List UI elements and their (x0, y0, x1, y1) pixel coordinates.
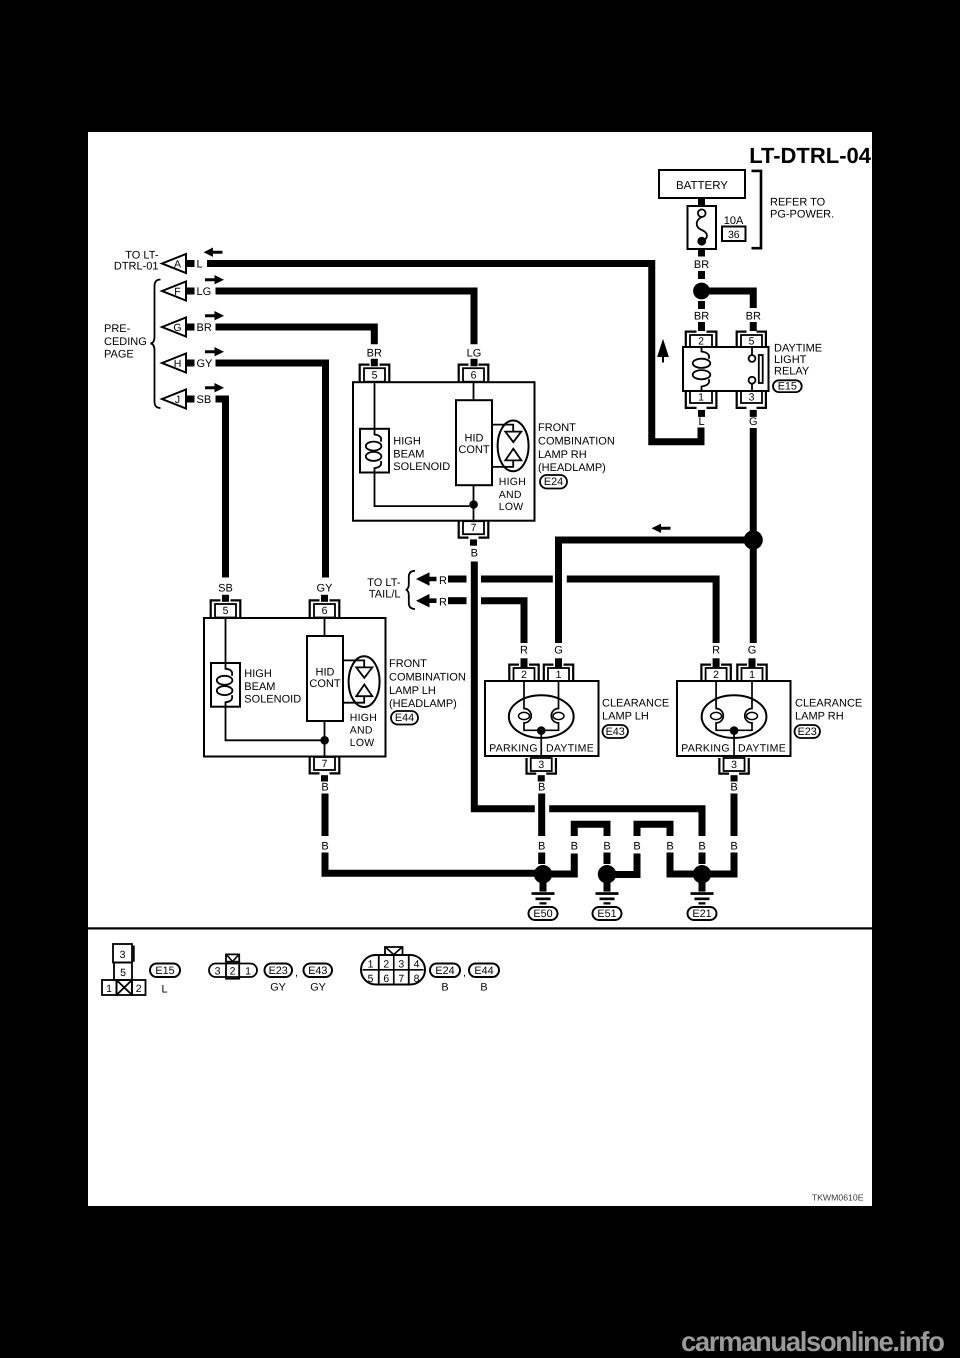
svg-text:5: 5 (749, 336, 755, 348)
pin 6 (LH (headlamp)) (310, 600, 340, 618)
svg-text:2: 2 (521, 669, 527, 681)
pin 2 (RH) (701, 665, 730, 681)
svg-text:E43: E43 (308, 965, 327, 977)
wire bridge E51-E21 (637, 824, 670, 836)
connector ref E15 (773, 380, 802, 392)
svg-text:LAMP LH: LAMP LH (602, 710, 649, 722)
arrow R row1 to LT-TAIL/L (416, 572, 467, 587)
svg-text:LOW: LOW (350, 737, 375, 749)
svg-text:E15: E15 (155, 965, 174, 977)
svg-text:7: 7 (398, 973, 404, 985)
label R above LH clearance pin2 (520, 644, 528, 667)
wire G from relay pin3 down to junction and RH clearance pin1 (750, 428, 757, 643)
wire BR junction to relay pin 2 (694, 301, 709, 331)
svg-text:HIGH: HIGH (350, 712, 377, 724)
svg-text:R: R (439, 575, 447, 587)
svg-text:HID: HID (316, 667, 335, 679)
svg-text:E51: E51 (597, 908, 616, 920)
relay body (683, 347, 769, 391)
svg-text:PARKING: PARKING (681, 742, 730, 754)
high beam solenoid (RH (headlamp)) (360, 383, 470, 506)
svg-text:B: B (441, 981, 448, 993)
svg-text:PARKING: PARKING (489, 742, 538, 754)
svg-text:CONT: CONT (309, 678, 340, 690)
connector ref E23 (795, 725, 821, 738)
svg-text:B: B (603, 841, 610, 853)
svg-text:COMBINATION: COMBINATION (389, 672, 466, 684)
arrow left above wire A (204, 248, 223, 257)
label R above RH clearance pin2 (712, 644, 720, 667)
pin 7 (RH (headlamp)) (459, 521, 489, 546)
relay pin 2 (686, 332, 717, 348)
svg-text:BEAM: BEAM (244, 681, 275, 693)
brace tail/l group (406, 571, 415, 609)
svg-text:E23: E23 (798, 726, 817, 738)
clearance lamp RH box (677, 681, 791, 756)
svg-text:B: B (666, 841, 673, 853)
svg-text:1: 1 (698, 392, 704, 404)
arrow right above wire F (205, 275, 224, 284)
label BR above RH pin5 (367, 347, 382, 366)
svg-text:L: L (698, 416, 704, 428)
svg-text:B: B (321, 782, 328, 794)
svg-text:G: G (748, 644, 757, 656)
refer-to bracket (752, 171, 762, 248)
svg-text:TO LT-: TO LT- (125, 249, 159, 261)
wire BR battery column (fuse to junction) (694, 259, 709, 279)
svg-text:1: 1 (106, 983, 112, 995)
arrow right above wire H (205, 347, 224, 356)
label TO LT-TAIL/L (367, 577, 401, 601)
wire B from LH clearance pin3 down to E50 (538, 794, 545, 865)
svg-text:6: 6 (471, 369, 477, 381)
svg-text:HIGH: HIGH (393, 436, 421, 448)
label SB above LH pin5 (218, 582, 233, 602)
svg-text:F: F (174, 286, 180, 298)
svg-text:6: 6 (383, 973, 389, 985)
svg-text:BATTERY: BATTERY (676, 180, 728, 192)
svg-text:2: 2 (383, 958, 389, 970)
wire from bridge down into E21 (670, 853, 694, 875)
bulb parking/daytime (LH) (509, 681, 574, 758)
svg-text:G: G (554, 644, 563, 656)
label REFER TO PG-POWER. (770, 197, 834, 221)
svg-text:B: B (633, 841, 640, 853)
svg-text:5: 5 (368, 973, 374, 985)
svg-text:5: 5 (372, 369, 378, 381)
svg-text:E43: E43 (606, 726, 625, 738)
svg-text:LG: LG (467, 347, 482, 359)
wire B from RH headlamp pin7 down across to E21 (474, 562, 535, 809)
svg-text:G: G (749, 416, 758, 428)
svg-text:SB: SB (197, 394, 212, 406)
ground E21 (688, 865, 717, 920)
svg-text:CONT: CONT (458, 444, 489, 456)
svg-text:E44: E44 (474, 965, 493, 977)
label FRONT COMBINATION LAMP RH (HEADLAMP) (538, 422, 615, 474)
connector arrow A (L) (162, 254, 203, 273)
svg-text:B: B (538, 782, 545, 794)
svg-text:PAGE: PAGE (104, 348, 134, 360)
pin 5 (LH (headlamp)) (211, 600, 241, 618)
arrow left on wire G (652, 524, 671, 533)
wire E50 right arm up (551, 854, 574, 875)
svg-text:3: 3 (731, 759, 737, 771)
label FRONT COMBINATION LAMP LH (HEADLAMP) (389, 658, 466, 710)
relay contacts (749, 347, 756, 391)
svg-text:LOW: LOW (499, 501, 524, 513)
svg-text:B: B (538, 841, 545, 853)
ground E50 (529, 865, 558, 920)
svg-text:AND: AND (350, 725, 373, 737)
svg-text:GY: GY (197, 358, 214, 370)
wire F/LG run to RH headlamp pin6 (216, 291, 475, 344)
svg-text:B: B (571, 841, 578, 853)
svg-text:,: , (295, 967, 298, 979)
bulb high/low (RH (headlamp)) (492, 421, 529, 472)
label HIGH AND LOW (LH (headlamp)) (350, 712, 377, 749)
svg-text:LG: LG (197, 286, 212, 298)
wire into E51 (604, 853, 611, 865)
svg-text:HIGH: HIGH (244, 668, 272, 680)
legend refs E24 , E44 (430, 964, 499, 994)
pin 7 (LH (headlamp)) (310, 757, 340, 782)
page background (88, 132, 872, 1206)
label TO LT-DTRL-01 (114, 249, 159, 272)
high beam solenoid (LH (headlamp)) (211, 618, 321, 741)
front combination lamp RH (headlamp) box (353, 382, 535, 521)
svg-text:1: 1 (556, 669, 562, 681)
svg-text:J: J (175, 394, 180, 406)
svg-text:E15: E15 (778, 381, 797, 393)
label PARKING / DAYTIME (RH) (681, 742, 786, 754)
label GY above LH pin6 (317, 582, 334, 602)
relay pin 3 (737, 391, 766, 417)
bulb high/low (LH (headlamp)) (343, 656, 380, 707)
svg-text:(HEADLAMP): (HEADLAMP) (538, 462, 606, 474)
separator line (88, 927, 872, 929)
daytime light relay E15 (683, 332, 822, 417)
pin 1 (RH) (737, 665, 766, 681)
svg-text:7: 7 (471, 522, 477, 534)
wire R row1 to RH clearance pin2 (481, 579, 716, 643)
arrow up beside wire (659, 342, 668, 363)
arrow right above wire J (205, 383, 224, 392)
pin 1 (LH) (544, 665, 573, 681)
svg-text:E44: E44 (395, 712, 414, 724)
svg-text:FRONT: FRONT (538, 422, 576, 434)
svg-text:PG-POWER.: PG-POWER. (770, 209, 834, 221)
svg-text:5: 5 (223, 605, 229, 617)
svg-text:B: B (321, 841, 328, 853)
svg-text:TAIL/L: TAIL/L (369, 589, 401, 601)
legend refs E23 , E43 (265, 964, 333, 994)
svg-text:10A: 10A (724, 215, 744, 227)
node junction dot (RH (headlamp)) (469, 500, 478, 509)
label PRE-CEDING PAGE (104, 323, 147, 360)
svg-text:4: 4 (414, 958, 420, 970)
svg-text:DAYTIME: DAYTIME (738, 742, 786, 754)
svg-text:CLEARANCE: CLEARANCE (602, 698, 669, 710)
connector ref E43 (603, 725, 629, 738)
svg-text:E24: E24 (435, 965, 454, 977)
svg-text:(HEADLAMP): (HEADLAMP) (389, 698, 457, 710)
node G junction (744, 530, 763, 549)
svg-text:BEAM: BEAM (393, 448, 424, 460)
label G above RH clearance pin1 (748, 644, 757, 667)
wire R row2 to LH clearance pin2 (481, 601, 524, 643)
svg-text:LAMP RH: LAMP RH (795, 710, 844, 722)
wire G/BR run to RH headlamp pin5 (216, 327, 375, 344)
relay pin 1 (686, 391, 717, 417)
connector ref E44 (391, 711, 418, 725)
label HIGH BEAM SOLENOID (RH (headlamp)) (393, 436, 450, 473)
svg-text:SOLENOID: SOLENOID (393, 461, 450, 473)
arrow right above wire G (205, 311, 224, 320)
hid cont (RH (headlamp)) (456, 382, 492, 523)
svg-text:1: 1 (368, 958, 374, 970)
wire J/SB run to LH headlamp pin5 (216, 399, 226, 578)
svg-text:7: 7 (322, 758, 328, 770)
svg-text:BR: BR (367, 347, 382, 359)
svg-text:5: 5 (120, 967, 126, 979)
svg-text:2: 2 (698, 336, 704, 348)
svg-text:R: R (439, 597, 447, 609)
svg-text:L: L (197, 259, 203, 271)
relay pin 5 (737, 332, 766, 348)
svg-text:SOLENOID: SOLENOID (244, 693, 301, 705)
svg-text:LAMP LH: LAMP LH (389, 685, 436, 697)
svg-text:DTRL-01: DTRL-01 (114, 261, 159, 273)
pin 3 (RH) (719, 758, 748, 782)
svg-text:1: 1 (245, 965, 251, 977)
svg-text:,: , (463, 967, 466, 979)
connector arrow H (GY) (162, 354, 213, 373)
legend ref E15 (150, 964, 180, 996)
svg-text:B: B (730, 782, 737, 794)
svg-text:E50: E50 (533, 908, 552, 920)
connector arrow F (LG) (162, 282, 211, 301)
bulb parking/daytime (RH) (702, 681, 767, 758)
node BR junction (693, 283, 710, 300)
svg-text:HID: HID (465, 433, 484, 445)
svg-text:LAMP RH: LAMP RH (538, 449, 587, 461)
connector arrow J (SB) (162, 390, 211, 409)
svg-text:3: 3 (215, 965, 221, 977)
svg-text:LT-DTRL-04: LT-DTRL-04 (749, 143, 872, 168)
wire A/L run: arrow A right, down, to relay pin1 L (207, 264, 701, 442)
svg-text:RELAY: RELAY (774, 366, 810, 378)
svg-text:GY: GY (310, 981, 326, 993)
svg-text:H: H (174, 358, 182, 370)
pin 6 (RH (headlamp)) (459, 365, 489, 383)
svg-text:A: A (174, 258, 181, 270)
label CLEARANCE LAMP LH (602, 698, 669, 723)
relay armature bar (759, 355, 763, 383)
svg-text:36: 36 (728, 229, 740, 241)
svg-text:PRE-: PRE- (104, 323, 131, 335)
wire H/GY run to LH headlamp pin6 (216, 363, 326, 578)
pin 5 (RH (headlamp)) (360, 365, 390, 383)
svg-text:BR: BR (746, 311, 761, 323)
svg-text:B: B (730, 841, 737, 853)
svg-text:SB: SB (218, 582, 233, 594)
wire bridge E50-E51 (574, 824, 607, 836)
svg-text:BR: BR (694, 259, 709, 271)
node junction dot (LH (headlamp)) (320, 736, 329, 745)
legend connector E24/E44 face (8 pin) (361, 947, 425, 985)
connector arrow G (BR) (162, 318, 212, 337)
svg-text:G: G (173, 322, 181, 334)
svg-text:L: L (161, 983, 167, 995)
svg-text:CLEARANCE: CLEARANCE (795, 698, 862, 710)
battery (659, 170, 745, 207)
svg-text:DAYTIME: DAYTIME (774, 342, 822, 354)
pin 2 (LH) (509, 665, 538, 681)
svg-text:AND: AND (499, 489, 522, 501)
svg-text:3: 3 (398, 958, 404, 970)
svg-text:LIGHT: LIGHT (774, 354, 807, 366)
svg-text:GY: GY (317, 582, 334, 594)
svg-text:3: 3 (749, 392, 755, 404)
wire B from LH headlamp pin7 down and right to E50 (322, 794, 329, 837)
wire B dash into E21 (699, 853, 706, 865)
legend connector E23/E43 face (209, 954, 257, 978)
svg-text:TKWM0610E: TKWM0610E (812, 1193, 864, 1203)
svg-text:FRONT: FRONT (389, 658, 427, 670)
svg-text:2: 2 (713, 669, 719, 681)
wire E21 right arm from RH clearance pin3 (731, 794, 738, 837)
svg-text:3: 3 (120, 949, 126, 961)
svg-text:REFER TO: REFER TO (770, 197, 826, 209)
svg-text:R: R (712, 644, 720, 656)
label CLEARANCE LAMP RH (795, 698, 862, 723)
svg-text:CEDING: CEDING (104, 336, 147, 348)
legend connector E15 face (102, 944, 146, 995)
svg-text:B: B (698, 841, 705, 853)
brace preceding page group (151, 280, 161, 409)
svg-text:2: 2 (136, 983, 142, 995)
svg-text:B: B (471, 548, 478, 560)
label HIGH BEAM SOLENOID (LH (headlamp)) (244, 668, 301, 705)
svg-text:BR: BR (694, 311, 709, 323)
svg-text:HIGH: HIGH (499, 476, 526, 488)
svg-text:BR: BR (197, 322, 212, 334)
label LG above RH pin6 (467, 347, 482, 366)
svg-text:COMBINATION: COMBINATION (538, 436, 615, 448)
ground E51 (593, 865, 622, 920)
wire BR branch junction to relay pin 5 (702, 291, 761, 331)
svg-text:TO LT-: TO LT- (367, 577, 401, 589)
label PARKING / DAYTIME (LH) (489, 742, 594, 754)
svg-text:E24: E24 (544, 476, 563, 488)
svg-text:1: 1 (749, 669, 755, 681)
svg-text:6: 6 (322, 605, 328, 617)
svg-text:E23: E23 (269, 965, 288, 977)
svg-text:2: 2 (230, 965, 236, 977)
hid cont (LH (headlamp)) (307, 618, 343, 759)
fuse 10A 36 (688, 206, 746, 257)
relay coil (693, 347, 711, 391)
front combination lamp LH (headlamp) box (204, 618, 386, 757)
wire G junction left and down to LH clearance pin1 (559, 540, 746, 643)
svg-text:E21: E21 (692, 908, 711, 920)
label G above LH clearance pin1 (554, 644, 563, 667)
svg-text:GY: GY (270, 981, 286, 993)
connector ref E24 (540, 475, 567, 489)
label HIGH AND LOW (RH (headlamp)) (499, 476, 526, 513)
svg-text:carmanualsonline.info: carmanualsonline.info (681, 1326, 944, 1357)
svg-text:DAYTIME: DAYTIME (546, 742, 594, 754)
svg-text:3: 3 (538, 759, 544, 771)
svg-text:R: R (520, 644, 528, 656)
svg-text:8: 8 (414, 973, 420, 985)
wire E51 right arm up (615, 854, 637, 875)
pin 3 (LH) (527, 758, 556, 782)
arrow R row2 to LT-TAIL/L (416, 594, 467, 609)
clearance lamp LH box (485, 681, 599, 756)
svg-text:B: B (480, 981, 487, 993)
